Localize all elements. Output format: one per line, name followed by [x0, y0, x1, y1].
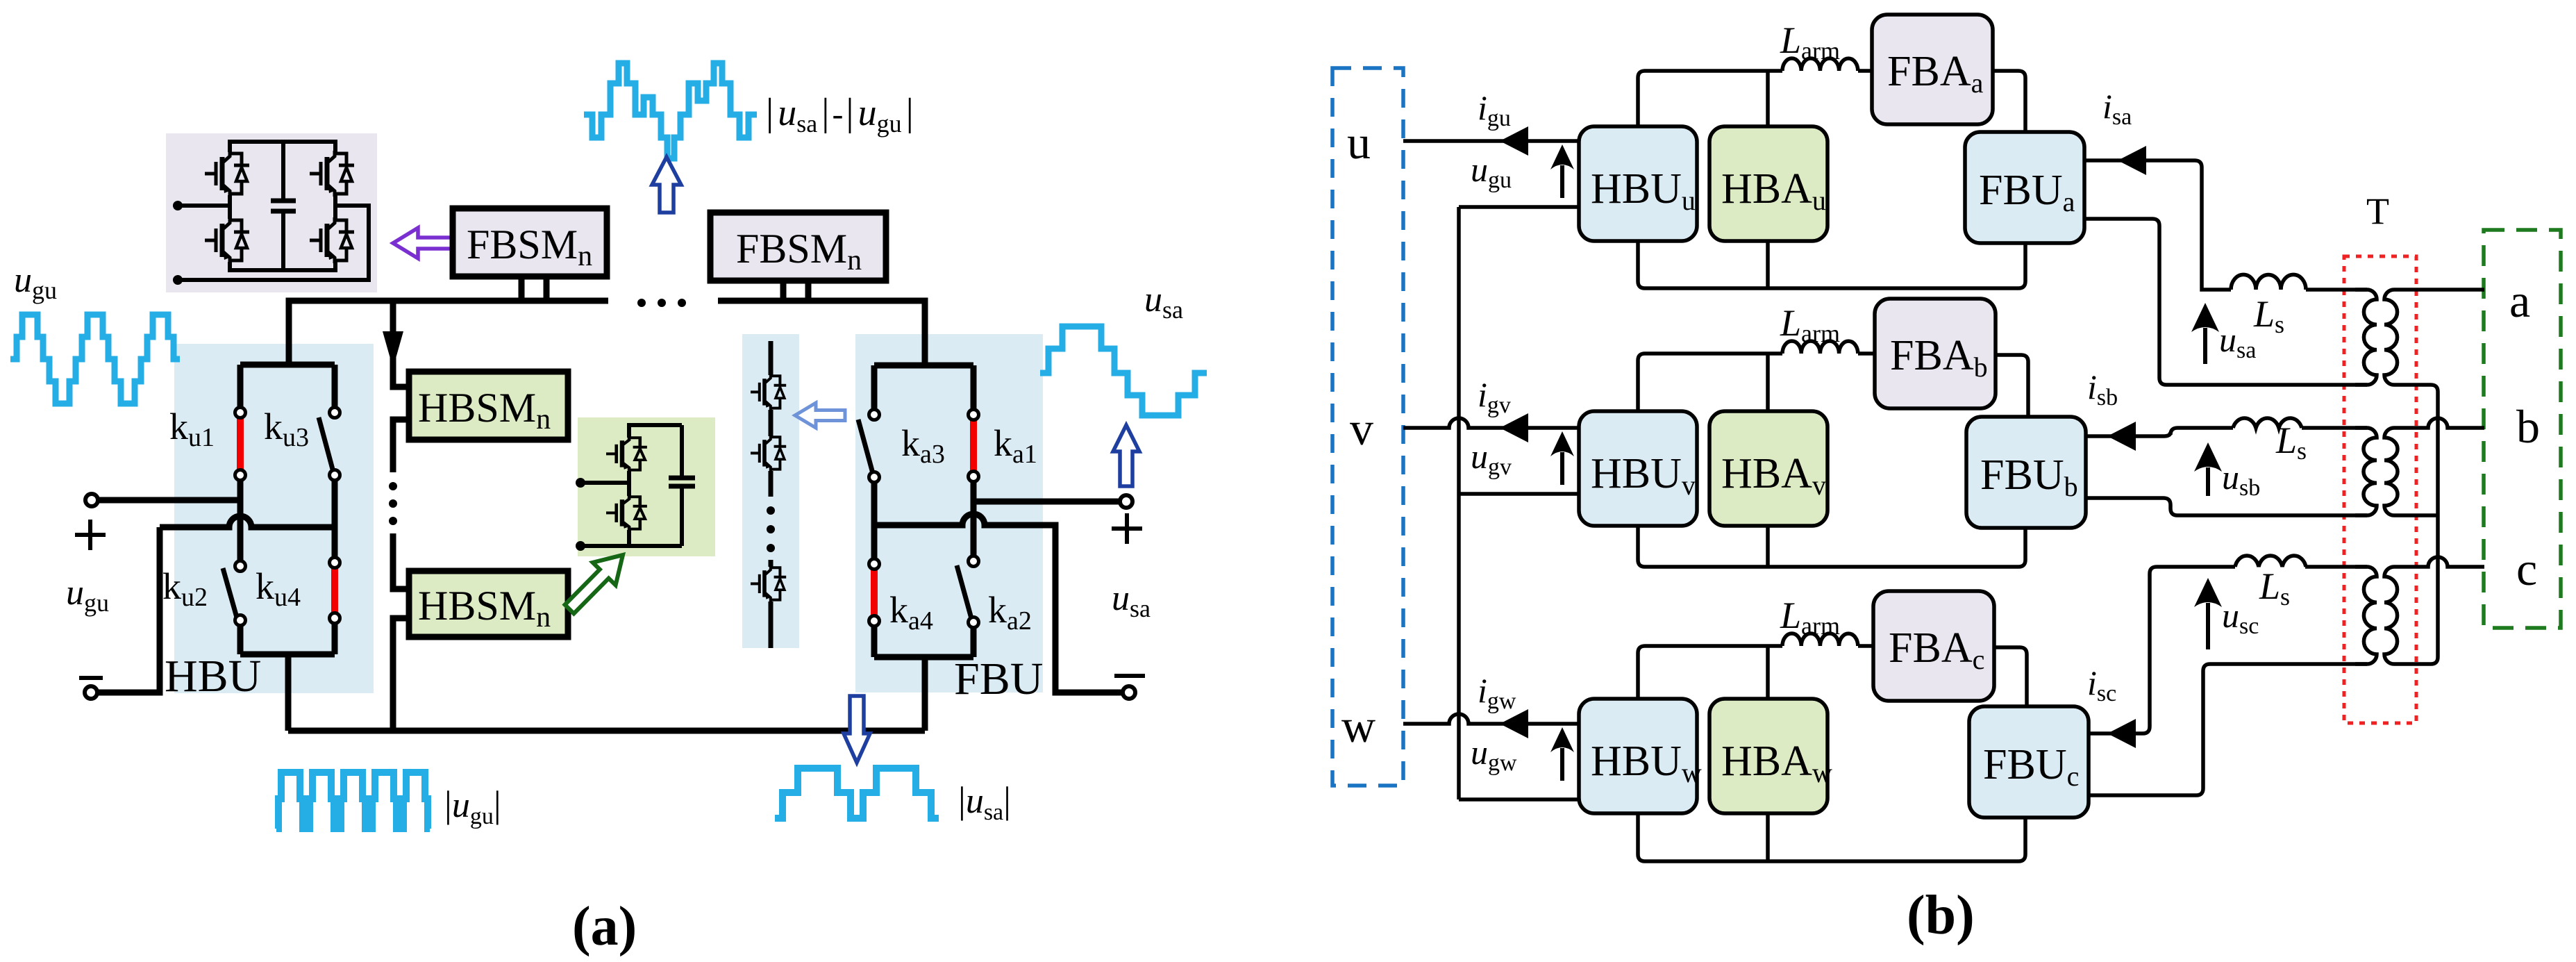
HBUw lower-left wire — [1459, 797, 1579, 802]
black down arrow on HBSM chain wire — [383, 331, 403, 368]
block FBUa — [1965, 132, 2084, 243]
FBUa output wire to Ls (top) — [2084, 160, 2231, 290]
block FBAc — [1873, 591, 1994, 701]
minus terminal of ugu port — [85, 686, 97, 699]
svg-text:FBUa: FBUa — [1979, 167, 2075, 217]
IGBT Q1 upper-left of FBSM — [205, 151, 249, 197]
submodule HBSM_n box 2 — [409, 571, 568, 637]
svg-text:FBSMn: FBSMn — [467, 222, 592, 272]
svg-text:FBAc: FBAc — [1889, 624, 1984, 675]
blue dashed grid-side box — [1332, 68, 1403, 786]
green dashed output box — [2484, 230, 2561, 628]
FBSM ac terminal node left-bottom and output loop wire — [173, 275, 183, 285]
svg-text:FBAb: FBAb — [1890, 332, 1988, 383]
ugu waveform (multilevel) top-left — [10, 315, 180, 404]
minus sign right — [1114, 674, 1145, 678]
FBSM internal circuit top rail wire — [230, 140, 335, 144]
FBSM detail circuit background box — [166, 133, 377, 292]
switch ka3 (open) — [871, 365, 878, 410]
FBU shaded region — [855, 334, 1043, 693]
HBA top stub phase w — [1766, 646, 1770, 699]
FBU output wire down — [922, 657, 928, 731]
phase u arm top bus wire with Larm inductor — [1638, 71, 1782, 126]
transformer phase a secondary winding — [2384, 290, 2407, 385]
switch ka4 (closed, red) — [871, 570, 878, 615]
svg-text:v: v — [1350, 402, 1373, 455]
svg-text:T: T — [2366, 190, 2389, 232]
plus sign — [75, 533, 106, 537]
IGBT upper of HBSM — [606, 436, 647, 472]
voltage arrow ugv — [1560, 452, 1564, 485]
strip IGBT 2 — [751, 435, 786, 472]
submodule HBSM_n box 1 — [409, 372, 568, 440]
FBSM chain bus wire right segment — [718, 301, 925, 365]
svg-text:u: u — [1347, 116, 1371, 169]
FBUb return wire (bottom) to transformer — [2086, 498, 2367, 515]
switch ku3 (open) — [332, 365, 338, 408]
shared neutral bus vertical wire — [1457, 207, 1461, 799]
vertical ellipsis dots in HBSM chain — [389, 482, 397, 490]
FBAb to FBUb wire — [1996, 355, 2028, 417]
HBSM1 to dots wire — [393, 420, 409, 472]
block HBAw — [1709, 699, 1828, 813]
strip wire above IGBT3 — [769, 560, 773, 567]
HBA top stub phase v — [1766, 354, 1770, 411]
svg-text:HBAu: HBAu — [1721, 165, 1826, 216]
HBA bottom stub phase v — [1766, 526, 1770, 567]
svg-text:w: w — [1341, 699, 1375, 752]
wire from bus down to HBSM chain — [393, 301, 409, 387]
svg-text:HBUu: HBUu — [1591, 165, 1696, 216]
FBSM internal left leg wire segments — [228, 140, 232, 152]
voltage arrow ugw — [1560, 748, 1564, 781]
svg-text:HBSMn: HBSMn — [418, 583, 551, 633]
block FBUb — [1966, 417, 2086, 528]
submodule FBSM_n box 2 — [710, 213, 886, 281]
secondary neutral vertical wire — [2407, 385, 2438, 664]
block HBUv — [1579, 411, 1697, 526]
svg-text:(a): (a) — [572, 896, 637, 957]
svg-text:HBU: HBU — [165, 651, 261, 702]
ellipsis dots between FBSM boxes — [637, 299, 646, 307]
HBSM ac terminal mid node — [576, 478, 585, 488]
plus terminal of ugu port — [85, 494, 98, 506]
HBSM bottom rail and terminal node — [576, 541, 585, 551]
FBSM chain bus wire left segment — [289, 301, 608, 365]
phase u arm bottom bus wire — [1638, 241, 2025, 288]
IGBT Q4 lower-right of FBSM — [310, 217, 354, 263]
FBU top bar wire — [874, 363, 973, 369]
blue up arrow below difference waveform — [652, 157, 681, 213]
IGBT lower of HBSM — [606, 495, 647, 531]
current arrow igu — [1500, 126, 1528, 156]
HBU top bar wire — [240, 362, 335, 368]
dots to HBSM2 wire — [393, 533, 409, 589]
HBSM internal top rail wire — [629, 425, 682, 438]
block HBAu — [1709, 126, 1828, 241]
svg-text:(b): (b) — [1907, 885, 1975, 946]
svg-text:FBUb: FBUb — [1980, 451, 2078, 502]
FBUa return wire (bottom) to transformer — [2084, 219, 2367, 385]
svg-text:HBAv: HBAv — [1721, 450, 1826, 501]
strip vertical ellipsis dots — [767, 506, 775, 515]
submodule FBSM_n box 1 — [453, 208, 607, 276]
block HBUu — [1579, 126, 1697, 241]
current arrow isa — [2118, 146, 2146, 175]
HBU shaded region — [174, 344, 374, 693]
transformer phase b primary winding — [2355, 428, 2377, 515]
grid phase wire v — [1403, 418, 1579, 428]
FBSM2 stub wires — [780, 281, 787, 301]
HBU output wire down — [285, 654, 292, 731]
FBAa to FBUa wire — [1993, 71, 2025, 132]
svg-text:FBAa: FBAa — [1887, 48, 1984, 99]
FBU plus output wire — [973, 499, 1120, 505]
HBA top stub phase u — [1766, 71, 1770, 126]
FBSM1 stub wires — [519, 276, 525, 301]
rectified ugu waveform bottom-left — [276, 772, 430, 829]
Ls inductor phase c — [2235, 556, 2306, 567]
strip IGBT 3 — [751, 565, 786, 602]
current arrow igv — [1500, 413, 1528, 442]
FBSM internal right leg wire segments — [333, 140, 337, 152]
svg-text:HBUv: HBUv — [1591, 450, 1696, 501]
block HBUw — [1579, 699, 1697, 813]
current arrow isc — [2107, 719, 2136, 748]
switch ku1 (closed, red) — [237, 365, 244, 408]
phase v arm top bus wire with Larm inductor — [1638, 354, 1782, 411]
current arrow igw — [1500, 709, 1528, 738]
svg-text:FBSMn: FBSMn — [736, 226, 862, 276]
FBUc output wire to Ls (top) — [2087, 567, 2235, 733]
switch ka1 (closed, red) — [971, 365, 977, 410]
HBSM detail circuit background box — [578, 417, 715, 556]
strip wire bottom — [769, 602, 773, 648]
transformer phase c primary winding — [2355, 567, 2377, 664]
light blue callout arrow to strip — [795, 403, 845, 428]
HBU bottom bar wire — [240, 652, 335, 658]
secondary phase a wire to node a — [2407, 288, 2484, 292]
phase w arm bottom bus wire — [1638, 813, 2025, 861]
transformer phase a primary winding — [2355, 290, 2377, 385]
HBSM internal capacitor — [680, 425, 684, 478]
FBUb output wire to Ls (top) — [2086, 428, 2233, 436]
voltage arrow usa — [2203, 328, 2207, 364]
transformer phase c secondary winding — [2384, 567, 2407, 664]
svg-text:b: b — [2516, 400, 2540, 453]
secondary phase b bottom tie wire — [2407, 513, 2438, 517]
phase v arm bottom bus wire — [1638, 526, 2025, 567]
FBSM capacitor C — [281, 142, 285, 201]
HBUu lower-left wire — [1459, 205, 1579, 209]
svg-text:HBSMn: HBSMn — [418, 385, 551, 436]
Ls inductor phase a — [2231, 274, 2306, 290]
current arrow isb — [2107, 422, 2136, 451]
FBUc return wire (bottom) to transformer — [2087, 664, 2367, 795]
FBU mid rail wire with hop to minus terminal — [874, 514, 1123, 693]
svg-text:c: c — [2516, 542, 2537, 595]
grid phase wire u — [1403, 139, 1579, 143]
purple callout arrow from FBSM1 to detail circuit — [393, 228, 453, 258]
usa waveform right — [1040, 326, 1207, 415]
block FBAa — [1872, 15, 1993, 124]
svg-text:a: a — [2509, 274, 2530, 327]
secondary phase b wire to node b with hop — [2407, 418, 2484, 428]
usa-ugu difference waveform top-middle — [584, 63, 757, 158]
grid phase wire w — [1403, 714, 1579, 724]
plus sign right — [1112, 526, 1142, 531]
block HBAv — [1709, 411, 1828, 526]
cascaded IGBT strip background — [742, 334, 799, 648]
wire from minus terminal to right branch with hop — [160, 516, 335, 527]
phase w arm top bus wire with Larm inductor — [1638, 646, 1782, 699]
switch ku2 (open) — [237, 500, 244, 562]
FBU bottom bar wire — [874, 654, 973, 661]
minus sign — [79, 676, 103, 680]
strip wire mid — [769, 410, 773, 436]
rectified usa waveform bottom-middle — [775, 768, 939, 818]
FBSM ac terminal node left-top — [173, 201, 183, 210]
svg-text:FBU: FBU — [954, 654, 1043, 704]
secondary phase c wire to node c with hop — [2407, 557, 2484, 567]
HBSM2 down to output bus wire — [393, 618, 409, 731]
blue up arrow below usa waveform — [1113, 425, 1139, 486]
HBA bottom stub phase u — [1766, 241, 1770, 288]
svg-text:FBUc: FBUc — [1983, 741, 2079, 792]
red dotted transformer box — [2344, 256, 2416, 723]
blue down arrow to rectified usa waveform — [844, 696, 870, 763]
HBA bottom stub phase w — [1766, 813, 1770, 861]
strip IGBT 1 — [751, 374, 786, 410]
HBUv lower-left wire — [1459, 492, 1579, 496]
voltage arrow usc — [2206, 603, 2210, 649]
cascaded strip wire top — [769, 341, 773, 375]
bottom output bus wire — [288, 728, 925, 734]
transformer phase b secondary winding — [2384, 428, 2407, 515]
Ls inductor phase b — [2233, 418, 2302, 428]
strip wire below IGBT2 — [769, 471, 773, 497]
IGBT Q2 lower-left of FBSM — [205, 217, 249, 263]
voltage arrow usb — [2206, 467, 2210, 496]
green callout arrow from HBSM2 to detail circuit — [565, 555, 623, 613]
HBSM internal leg wire — [627, 471, 631, 496]
FBAc to FBUc wire — [1994, 647, 2027, 706]
IGBT Q3 upper-right of FBSM — [310, 151, 354, 197]
switch ka2 (open) — [957, 565, 972, 621]
block FBUc — [1969, 706, 2089, 818]
voltage arrow ugu — [1560, 165, 1564, 198]
switch ku4 (closed, red) — [332, 527, 338, 558]
FBSM internal circuit bottom rail wire — [230, 268, 335, 272]
block FBAb — [1875, 299, 1996, 408]
